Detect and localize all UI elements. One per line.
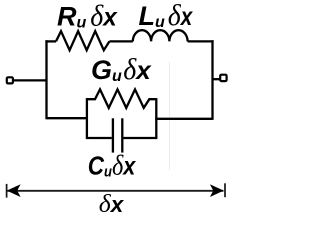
svg-text:Ruδx: Ruδx [57, 0, 118, 33]
faint guide line [169, 62, 171, 170]
wire left port lead [14, 79, 47, 81]
wire shunt left entry [47, 117, 89, 119]
wire shunt right entry [155, 118, 212, 120]
dimension terminator bar right [224, 183, 226, 197]
dimension terminator bar left [6, 184, 8, 198]
wire capacitor left lead [87, 137, 112, 139]
wire right vertical [211, 40, 213, 120]
dimension line delta-x [8, 190, 224, 192]
svg-text:δx: δx [99, 189, 125, 218]
inductor L1 (Lu dx) three humps [133, 30, 188, 41]
capacitor C1 right plate [121, 118, 123, 152]
svg-text:Guδx: Guδx [91, 53, 152, 86]
capacitor C1 left plate [112, 118, 114, 152]
wire top-left lead [45, 40, 56, 42]
terminal right port [220, 75, 226, 81]
terminal left port [7, 77, 13, 83]
svg-text:Cuδx: Cuδx [88, 151, 136, 182]
node right bar of GC block [155, 98, 157, 139]
wire capacitor right lead [123, 137, 156, 139]
wire right port lead [213, 78, 220, 80]
resistor G1 (Gu dx) zigzag [87, 89, 156, 108]
wire top-right lead [188, 40, 214, 42]
wire left vertical [45, 40, 47, 119]
resistor R1 (Ru dx) zigzag [56, 31, 109, 50]
wire between resistor and inductor [109, 40, 132, 42]
dimension arrowhead left [7, 184, 21, 197]
node left bar of GC block [86, 98, 88, 139]
svg-text:Luδx: Luδx [139, 0, 194, 32]
dimension arrowhead right [210, 184, 224, 197]
